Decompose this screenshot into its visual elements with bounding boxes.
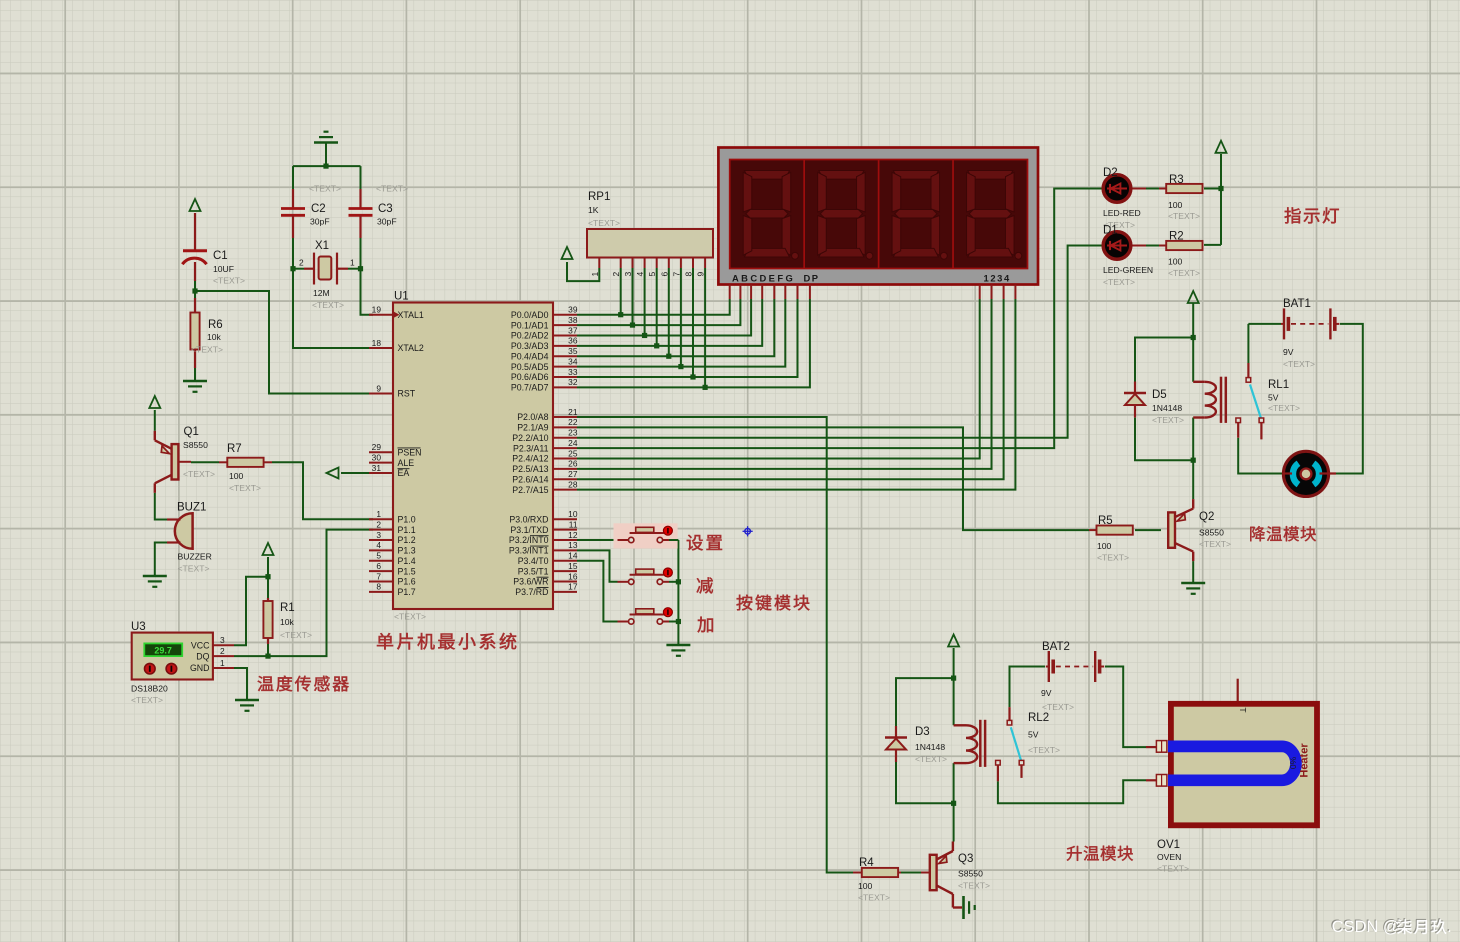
svg-text:29: 29 — [372, 442, 382, 452]
wire RL2 coil to Q3 collector — [953, 763, 955, 841]
svg-text:Q2: Q2 — [1199, 511, 1214, 523]
svg-text:100: 100 — [858, 881, 873, 891]
svg-text:<TEXT>: <TEXT> — [1028, 745, 1060, 755]
pin P3.6/WR (16) — [553, 580, 577, 582]
wire P1.1 to DS18B20 DQ — [234, 530, 373, 657]
svg-text:5V: 5V — [1028, 730, 1039, 740]
svg-text:P3.2/INT0: P3.2/INT0 — [509, 535, 549, 545]
ground (R6) — [183, 380, 207, 383]
label minus — [697, 577, 713, 593]
svg-text:C1: C1 — [213, 250, 228, 262]
svg-text:7: 7 — [671, 272, 681, 277]
svg-text:XTAL1: XTAL1 — [398, 310, 424, 320]
svg-text:8: 8 — [376, 582, 381, 592]
svg-text:S8550: S8550 — [183, 440, 208, 450]
RP1 pin 5 — [656, 258, 658, 269]
pin P0.7/AD7 (32) — [553, 386, 577, 388]
wire RL1 coil to Q2 collector — [1192, 418, 1194, 500]
svg-text:13: 13 — [568, 540, 578, 550]
power flag VCC (C1) — [190, 199, 201, 211]
pin P3.4/T0 (14) — [553, 560, 577, 562]
wire P2.6 to display digit 3 — [577, 299, 1004, 479]
transistor Q1 S8550 — [172, 444, 179, 479]
svg-text:BAT1: BAT1 — [1283, 298, 1311, 310]
pin P2.0/A8 (21) — [553, 416, 577, 418]
pin P2.7/A15 (28) — [553, 489, 577, 491]
svg-text:10: 10 — [568, 509, 578, 519]
svg-text:9V: 9V — [1283, 347, 1294, 357]
svg-text:BAT2: BAT2 — [1042, 641, 1070, 653]
svg-text:100: 100 — [1168, 257, 1183, 267]
pin ALE (30) — [369, 462, 393, 464]
svg-text:25: 25 — [568, 448, 578, 458]
svg-text:6: 6 — [376, 561, 381, 571]
junction RP1 pin9 — [703, 385, 708, 390]
wire P2.7 to display digit 4 — [577, 299, 1015, 490]
svg-text:X1: X1 — [315, 240, 329, 252]
wire VCC rail of indicator LEDs — [1220, 154, 1222, 245]
svg-text:3: 3 — [376, 530, 381, 540]
svg-text:10UF: 10UF — [213, 264, 234, 274]
pin P2.4/A12 (25) — [553, 458, 577, 460]
svg-text:17: 17 — [568, 582, 578, 592]
svg-text:1234: 1234 — [984, 273, 1011, 284]
svg-text:31: 31 — [372, 463, 382, 473]
pin P0.6/AD6 (33) — [553, 376, 577, 378]
display digit 1 — [744, 171, 789, 180]
capacitor C2 30pF — [292, 189, 294, 208]
svg-text:3: 3 — [623, 272, 633, 277]
pin EA (31) — [369, 472, 393, 474]
junction R3-VCC rail — [1218, 186, 1223, 191]
svg-text:33: 33 — [568, 367, 578, 377]
wire R3 to rail — [1204, 188, 1221, 190]
RP1 pin 8 — [692, 258, 694, 269]
oven heater element — [1168, 746, 1296, 780]
relay RL1 coil — [1193, 381, 1205, 383]
svg-text:<TEXT>: <TEXT> — [213, 276, 245, 286]
svg-text:P0.4/AD4: P0.4/AD4 — [511, 351, 549, 361]
label heating module — [1067, 846, 1082, 861]
wire P0.5 row to display riser — [577, 299, 785, 367]
svg-text:15: 15 — [568, 561, 578, 571]
svg-text:<TEXT>: <TEXT> — [312, 300, 344, 310]
svg-text:P3.5/T1: P3.5/T1 — [518, 566, 549, 576]
svg-text:P2.3/A11: P2.3/A11 — [513, 443, 549, 453]
svg-text:24: 24 — [568, 438, 578, 448]
junction C1-R6-RST — [192, 288, 197, 293]
junction C2-X1-XTAL2 — [290, 266, 295, 271]
svg-text:S8550: S8550 — [958, 869, 983, 879]
svg-text:1N4148: 1N4148 — [915, 742, 945, 752]
svg-text:D1: D1 — [1103, 225, 1118, 237]
svg-text:P2.0/A8: P2.0/A8 — [517, 412, 548, 422]
svg-text:ABCDEFG: ABCDEFG — [732, 273, 795, 284]
svg-text:39: 39 — [568, 305, 578, 315]
display digit 4 — [968, 171, 1013, 180]
svg-text:P0.6/AD6: P0.6/AD6 — [511, 372, 549, 382]
svg-text:100: 100 — [1097, 541, 1112, 551]
U3 adjust knobs — [145, 663, 156, 674]
wire C2 to X1 pin2 to XTAL2 — [293, 238, 373, 348]
svg-text:<TEXT>: <TEXT> — [1168, 211, 1200, 221]
svg-text:<TEXT>: <TEXT> — [1268, 403, 1300, 413]
junction VCC-R1-U3 — [265, 574, 270, 579]
pin P1.6 (7) — [369, 580, 393, 582]
label MCU minimal system — [377, 633, 393, 649]
svg-text:30: 30 — [372, 452, 382, 462]
wire buzzer to ground — [155, 543, 167, 577]
wire D2 to R3 — [1131, 188, 1146, 190]
svg-text:D2: D2 — [1103, 167, 1118, 179]
wire EA to pullup arrow — [341, 472, 373, 474]
wire Q2 emitter to ground — [1192, 561, 1194, 583]
pin PSEN (29) — [369, 451, 393, 453]
power flag VCC (LEDs) — [1216, 141, 1227, 153]
svg-text:T: T — [1238, 707, 1248, 712]
svg-text:RP1: RP1 — [588, 191, 610, 203]
label temperature sensor — [258, 676, 274, 691]
svg-text:P2.7/A15: P2.7/A15 — [512, 485, 548, 495]
motor (fan) — [1283, 451, 1328, 496]
junction RP1 pin2 — [618, 312, 623, 317]
svg-text:28: 28 — [568, 479, 578, 489]
wire Q1 collector to buzzer — [155, 493, 167, 520]
svg-text:2: 2 — [299, 258, 304, 268]
RP1 pin 3 — [632, 258, 634, 269]
pin P1.0 (1) — [369, 518, 393, 520]
svg-text:R3: R3 — [1169, 174, 1184, 186]
svg-text:4: 4 — [635, 272, 645, 277]
svg-text:BUZZER: BUZZER — [178, 552, 212, 562]
svg-text:PSEN: PSEN — [398, 447, 422, 457]
svg-text:30pF: 30pF — [310, 217, 330, 227]
svg-text:P1.4: P1.4 — [398, 556, 416, 566]
junction RP1 pin6 — [666, 354, 671, 359]
svg-text:LED-RED: LED-RED — [1103, 208, 1141, 218]
wire VCC to C1 — [194, 213, 196, 224]
svg-text:BUZ1: BUZ1 — [177, 502, 206, 514]
svg-text:30pF: 30pF — [377, 217, 397, 227]
svg-text:.: . — [1447, 918, 1452, 936]
svg-text:<TEXT>: <TEXT> — [191, 345, 223, 355]
resistor R7 100 — [178, 461, 191, 463]
RP1 pin 6 — [668, 258, 670, 269]
wire P2.2 to D1 LED-GREEN — [577, 246, 1104, 438]
svg-text:<TEXT>: <TEXT> — [588, 218, 620, 228]
svg-text:<TEXT>: <TEXT> — [394, 612, 426, 622]
pin P1.1 (2) — [369, 529, 393, 531]
svg-text:CSDN @: CSDN @ — [1332, 918, 1400, 936]
svg-text:2: 2 — [220, 646, 225, 656]
wire BAT2 plus to oven — [1105, 667, 1146, 748]
RP1 pin 9 — [704, 258, 706, 269]
svg-text:19: 19 — [372, 305, 382, 315]
svg-text:R4: R4 — [859, 857, 874, 869]
pin P1.5 (6) — [369, 570, 393, 572]
RP1 pin 4 — [644, 258, 646, 269]
svg-text:<TEXT>: <TEXT> — [229, 483, 261, 493]
pin P3.5/T1 (15) — [553, 570, 577, 572]
wire P0.3 row to display riser — [577, 299, 762, 346]
svg-text:<TEXT>: <TEXT> — [1097, 553, 1129, 563]
wire RL2 NO contact to oven return — [998, 780, 1146, 803]
wire P2.4 to display digit 1 — [577, 299, 980, 459]
wire R6 to ground — [194, 366, 196, 381]
transistor Q2 S8550 — [1168, 512, 1175, 547]
wire RL1 NO contact to motor — [1238, 438, 1283, 474]
resistor pack RP1 1K — [587, 229, 713, 258]
wire C3 to X1 pin1 to XTAL1 — [361, 238, 374, 315]
pin P0.0/AD0 (39) — [553, 314, 577, 316]
wire motor to BAT1 plus — [1336, 324, 1363, 474]
oven pins — [1146, 746, 1156, 748]
wire RP1 pin8 to P0.6 row — [692, 268, 694, 377]
svg-text:5V: 5V — [1268, 393, 1279, 403]
svg-text:P1.0: P1.0 — [398, 514, 416, 524]
temperature sensor U3 DS18B20 — [132, 633, 213, 680]
selection highlight — [614, 523, 678, 548]
pin P3.1/TXD (11) — [553, 529, 577, 531]
wire P0.6 row to display riser — [577, 299, 798, 377]
svg-text:R1: R1 — [280, 602, 295, 614]
microcontroller U1 8051 — [393, 303, 553, 610]
svg-text:<TEXT>: <TEXT> — [1283, 359, 1315, 369]
svg-text:P1.5: P1.5 — [398, 566, 416, 576]
wire top ground to C2 C3 — [293, 146, 326, 166]
svg-text:<TEXT>: <TEXT> — [1168, 268, 1200, 278]
wire VCC to R1 and DS18B20 VCC — [267, 557, 269, 598]
wire P2.0 to R4 (heater drive) — [577, 417, 853, 873]
wire P2.3 to D2 LED-RED — [577, 189, 1104, 449]
svg-text:11: 11 — [569, 519, 578, 529]
wire RP1 pin4 to P0.2 row — [644, 268, 646, 335]
wire R5 to Q2 base — [1135, 529, 1161, 531]
wire Q3 emitter to ground — [952, 904, 954, 908]
svg-text:<TEXT>: <TEXT> — [1152, 415, 1184, 425]
svg-text:P2.1/A9: P2.1/A9 — [517, 423, 548, 433]
wire D1 to R2 — [1131, 245, 1146, 247]
svg-text:<TEXT>: <TEXT> — [309, 184, 341, 194]
svg-text:U3: U3 — [131, 621, 146, 633]
ground (buzzer) — [143, 575, 167, 578]
pin P1.2 (3) — [369, 539, 393, 541]
svg-text:P0.5/AD5: P0.5/AD5 — [511, 362, 549, 372]
wire R7 to P1.0 — [272, 462, 373, 519]
wire D5 cathode down to Q2 node — [1135, 418, 1193, 461]
svg-text:Q1: Q1 — [184, 426, 199, 438]
pin P0.4/AD4 (35) — [553, 355, 577, 357]
LED D2 LED-RED — [1103, 175, 1131, 203]
junction C3-X1-XTAL1 — [358, 266, 363, 271]
wire buttons common rail to ground — [677, 540, 679, 645]
pin P0.5/AD5 (34) — [553, 366, 577, 368]
power flag VCC (RL1) — [1188, 291, 1199, 303]
relay RL1 switch — [1247, 363, 1249, 378]
svg-text:P0.7/AD7: P0.7/AD7 — [511, 383, 549, 393]
pin P3.0/RXD (10) — [553, 518, 577, 520]
svg-text:RST: RST — [398, 389, 416, 399]
display pins — [729, 285, 731, 300]
wire BAT2 minus to RL2 common — [1010, 667, 1046, 708]
wire RP1 pin5 to P0.3 row — [656, 268, 658, 346]
pin XTAL2 (18) — [369, 347, 393, 349]
svg-text:18: 18 — [372, 338, 382, 348]
7-segment display body — [718, 148, 1038, 285]
wire VCC to RL2 coil and D3 — [953, 648, 955, 725]
junction RP1 pin8 — [690, 374, 695, 379]
svg-text:36: 36 — [568, 336, 578, 346]
svg-text:<TEXT>: <TEXT> — [376, 184, 408, 194]
junction DQ-R1 — [265, 654, 270, 659]
power flag VCC (RL2) — [948, 635, 959, 647]
wire R1 to DQ net — [267, 632, 269, 656]
svg-text:OVEN: OVEN — [1157, 852, 1181, 862]
wire RP1 pin3 to P0.1 row — [632, 268, 634, 325]
svg-text:C2: C2 — [311, 203, 326, 215]
resistor R1 10k — [267, 598, 269, 601]
svg-text:1N4148: 1N4148 — [1152, 403, 1182, 413]
svg-text:P2.2/A10: P2.2/A10 — [512, 433, 548, 443]
RP1 pin 2 — [620, 258, 622, 269]
svg-text:P3.0/RXD: P3.0/RXD — [509, 514, 548, 524]
buzzer BUZ1 — [175, 513, 193, 549]
wire RP1 pin6 to P0.4 row — [668, 268, 670, 356]
display digit 3 — [893, 171, 938, 180]
svg-text:100: 100 — [229, 471, 244, 481]
pin P2.5/A13 (26) — [553, 468, 577, 470]
capacitor C3 30pF — [359, 189, 361, 208]
svg-text:RL1: RL1 — [1268, 379, 1289, 391]
wire P3.3 to minus button — [577, 550, 618, 581]
svg-text:EA: EA — [398, 468, 410, 478]
ground (Q2) — [1181, 582, 1205, 585]
label plus — [697, 617, 712, 633]
oven thermometer pin — [1237, 679, 1239, 701]
pin P2.1/A9 (22) — [553, 426, 577, 428]
svg-text:R5: R5 — [1098, 515, 1113, 527]
svg-text:Q3: Q3 — [958, 853, 973, 865]
svg-text:29.7: 29.7 — [154, 646, 172, 656]
pin XTAL1 (19) — [369, 314, 393, 316]
svg-text:1: 1 — [376, 509, 381, 519]
wire P3.4 to plus button — [577, 561, 618, 622]
wire C1/R6/RST net — [195, 266, 373, 394]
pin P2.2/A10 (23) — [553, 437, 577, 439]
label button module — [737, 595, 753, 611]
svg-text:16: 16 — [568, 571, 578, 581]
svg-text:<TEXT>: <TEXT> — [183, 469, 215, 479]
svg-text:5: 5 — [376, 551, 381, 561]
svg-text:12: 12 — [568, 530, 578, 540]
svg-text:P0.3/AD3: P0.3/AD3 — [511, 341, 549, 351]
svg-text:10k: 10k — [280, 617, 295, 627]
power flag VCC (Q1) — [149, 396, 160, 408]
svg-text:2: 2 — [376, 519, 381, 529]
wire P0.2 row to display riser — [577, 299, 751, 335]
svg-text:P0.1/AD1: P0.1/AD1 — [511, 320, 549, 330]
svg-text:DQ: DQ — [196, 651, 209, 661]
svg-text:U1: U1 — [394, 291, 409, 303]
wire VCC to RP1 pin1 — [567, 262, 599, 281]
pin P3.7/RD (17) — [553, 591, 577, 593]
pin P3.2/INT0 (12) — [553, 539, 577, 541]
junction RP1 pin5 — [654, 343, 659, 348]
svg-text:32: 32 — [568, 377, 578, 387]
svg-text:P1.2: P1.2 — [398, 535, 416, 545]
svg-text:D5: D5 — [1152, 389, 1167, 401]
power flag VCC (RP1) — [562, 247, 573, 259]
svg-text:6: 6 — [659, 272, 669, 277]
junction ground-C2-C3 — [323, 164, 328, 169]
push button (minus) — [618, 581, 629, 583]
svg-text:<TEXT>: <TEXT> — [958, 881, 990, 891]
ground (Q3) — [962, 896, 965, 919]
svg-text:LED-GREEN: LED-GREEN — [1103, 265, 1153, 275]
pin RST (9) — [369, 393, 393, 395]
pullup arrow (EA) — [327, 468, 339, 479]
svg-text:4: 4 — [376, 540, 381, 550]
svg-text:R6: R6 — [208, 319, 223, 331]
wire RP1 pin7 to P0.5 row — [680, 268, 682, 367]
relay RL2 switch — [1008, 707, 1010, 720]
svg-text:7: 7 — [376, 571, 381, 581]
junction D3-coil-Q3 — [951, 801, 956, 806]
junction D5-coil-Q2 — [1191, 458, 1196, 463]
label set — [687, 535, 703, 551]
svg-text:26: 26 — [568, 459, 578, 469]
pin P1.4 (5) — [369, 560, 393, 562]
svg-text:2: 2 — [611, 272, 621, 277]
svg-text:P1.7: P1.7 — [398, 587, 416, 597]
resistor R4 100 — [853, 872, 862, 874]
svg-text:P2.4/A12: P2.4/A12 — [512, 454, 548, 464]
wire BAT1 minus to RL1 common — [1247, 324, 1249, 363]
push button (plus) — [618, 621, 629, 623]
svg-text:1K: 1K — [588, 205, 599, 215]
junction RP1 pin7 — [678, 364, 683, 369]
pin P2.6/A14 (27) — [553, 478, 577, 480]
svg-text:37: 37 — [568, 325, 578, 335]
svg-text:21: 21 — [568, 407, 578, 417]
junction RP1 pin3 — [630, 322, 635, 327]
svg-text:D3: D3 — [915, 726, 930, 738]
svg-text:12M: 12M — [313, 288, 330, 298]
svg-text:1: 1 — [220, 658, 225, 668]
wire R2 to rail — [1204, 244, 1221, 246]
pin XTAL1 clock arrow — [393, 311, 400, 318]
svg-text:S8550: S8550 — [1199, 528, 1224, 538]
svg-text:P2.6/A14: P2.6/A14 — [512, 474, 548, 484]
junction rail-minus — [676, 579, 681, 584]
ground (crystal top) — [314, 141, 338, 144]
svg-text:34: 34 — [568, 356, 578, 366]
battery BAT1 9V — [1283, 308, 1285, 339]
pin P0.1/AD1 (38) — [553, 324, 577, 326]
pin P3.3/INT1 (13) — [553, 549, 577, 551]
svg-text:P1.6: P1.6 — [398, 577, 416, 587]
resistor R6 10k — [194, 291, 196, 298]
svg-text:<TEXT>: <TEXT> — [1042, 702, 1074, 712]
svg-text:P3.4/T0: P3.4/T0 — [518, 556, 549, 566]
svg-text:C3: C3 — [378, 203, 393, 215]
wire VCC to Q1 emitter — [154, 410, 156, 431]
svg-text:P2.5/A13: P2.5/A13 — [512, 464, 548, 474]
svg-text:14: 14 — [568, 551, 578, 561]
svg-text:GND: GND — [190, 663, 210, 673]
svg-text:RL2: RL2 — [1028, 712, 1049, 724]
wire P0.7 row to display riser — [577, 299, 810, 387]
